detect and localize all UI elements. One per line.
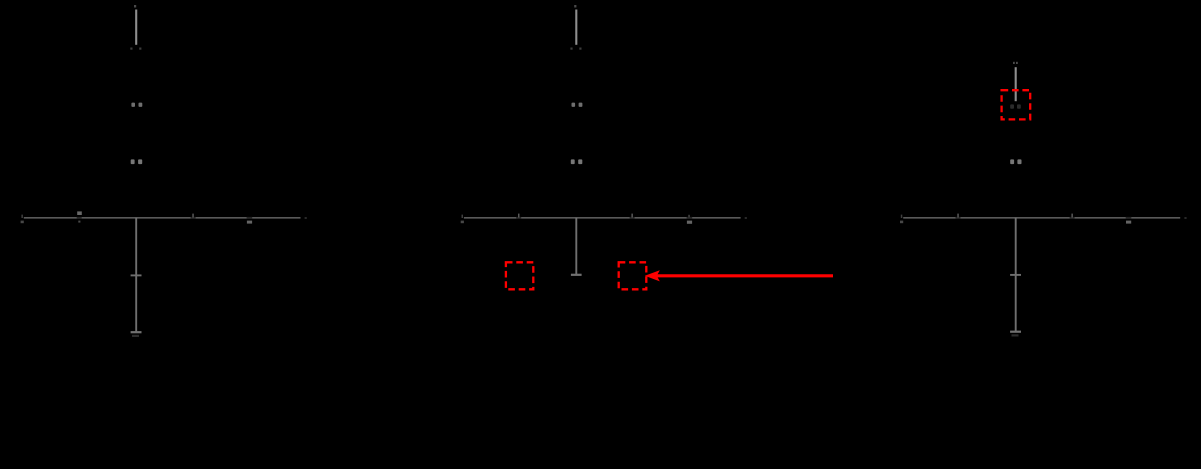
feeder 1 : switch SW2 glyph: [131, 159, 143, 164]
feeder 1 : bus tap joints (darker): [77, 217, 253, 219]
feeder 2 : lateral end cap: [571, 274, 582, 276]
feeder 3 : source drop wire: [1015, 67, 1017, 101]
feeder 1 : tap T3 glyph: [247, 221, 252, 224]
feeder 2 : tap T3 glyph: [687, 215, 692, 224]
feeder 1 : lateral device crossbar: [131, 274, 142, 276]
feeder 2 : source drop wire: [574, 5, 576, 45]
feeder 3 : switch SW1 glyph (dim, inside box): [1010, 104, 1021, 108]
feeder 2 : bus tap joints (darker): [516, 217, 692, 219]
feeder 3 : bus left end tap: [900, 215, 903, 224]
feeder 3 : lateral device crossbar: [1010, 274, 1021, 276]
feeder 3 : bus right end dot: [1184, 217, 1186, 219]
feeder 2 : bus B2: [464, 217, 741, 219]
feeder 1 : tap T1 glyph: [77, 211, 82, 222]
feeder 1 : bus right end dot: [305, 217, 307, 219]
feeder 2 : bus right end dot: [745, 217, 747, 219]
feeder 2 : switch SW1 glyph: [572, 103, 583, 107]
feeder 2 : switch SW2 glyph: [571, 159, 583, 164]
highlight box H2 (missing device, arrow target): [619, 262, 647, 289]
annotation arrow pointing to H2: [645, 270, 833, 281]
feeder 3 : end cap label blob: [1012, 334, 1019, 336]
feeder 1 : breaker contact dots: [130, 48, 141, 50]
feeder 2 : lateral wire: [575, 218, 577, 275]
feeder 1 : bus left end tap: [21, 215, 24, 224]
feeder 2 : breaker contact dots: [570, 48, 581, 50]
feeder 3 : bus B3: [903, 217, 1180, 219]
feeder 3 : switch SW2 glyph: [1010, 159, 1021, 164]
feeder 3 : lateral wire: [1015, 218, 1017, 332]
feeder 3 : source tip dots: [1013, 62, 1018, 64]
feeder 2 : bus left end tap: [461, 215, 464, 224]
highlight box H3 (device of interest): [1002, 90, 1031, 119]
feeder 1 : end cap label blob: [132, 335, 139, 337]
feeder 3 : tap T3 glyph: [1126, 221, 1131, 224]
feeder 1 : lateral end cap: [131, 331, 142, 333]
feeder 1 : lateral wire: [135, 218, 137, 332]
feeder 2 : tap T1 tick: [518, 214, 520, 218]
feeder 1 : source drop wire: [134, 5, 136, 45]
feeder 3 : tap T1 tick: [957, 214, 959, 218]
highlight box H1 (missing device): [506, 262, 533, 289]
feeder 1 : bus B1: [24, 217, 301, 219]
feeder 1 : tap T2 tick: [192, 214, 194, 218]
feeder 3 : bus tap joints (darker): [956, 217, 1132, 219]
feeder 3 : tap T2 tick: [1071, 214, 1073, 218]
feeder 3 : lateral end cap: [1010, 331, 1021, 333]
feeder 2 : tap T2 tick: [631, 214, 633, 218]
feeder 1 : switch SW1 glyph: [131, 103, 142, 107]
